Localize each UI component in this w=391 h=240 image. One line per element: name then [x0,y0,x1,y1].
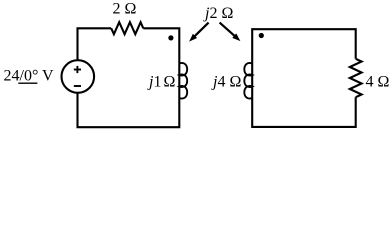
svg-text:j2 Ω: j2 Ω [203,5,233,22]
svg-text:4 Ω: 4 Ω [366,74,390,91]
svg-text:j4 Ω: j4 Ω [211,74,241,91]
svg-text:j1 Ω: j1 Ω [147,74,175,91]
svg-text:2 Ω: 2 Ω [113,1,137,18]
svg-text:24/0° V: 24/0° V [4,68,55,85]
